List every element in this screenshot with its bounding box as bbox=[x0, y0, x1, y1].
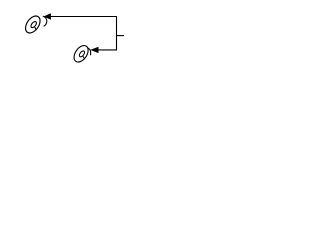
spiral outer flourish (top) bbox=[43, 16, 47, 26]
wire: right vertical bbox=[116, 16, 118, 50]
spiral outer flourish (bottom) bbox=[88, 48, 91, 55]
arrow to top symbol bbox=[43, 13, 51, 19]
arrow to bottom symbol bbox=[90, 47, 98, 53]
stub tick on vertical wire bbox=[117, 35, 125, 37]
wire: top horizontal bbox=[51, 16, 118, 18]
wire: bottom horizontal bbox=[98, 49, 117, 51]
spiral loop symbol (bottom) bbox=[71, 43, 91, 65]
spiral loop symbol (top) bbox=[23, 13, 43, 35]
